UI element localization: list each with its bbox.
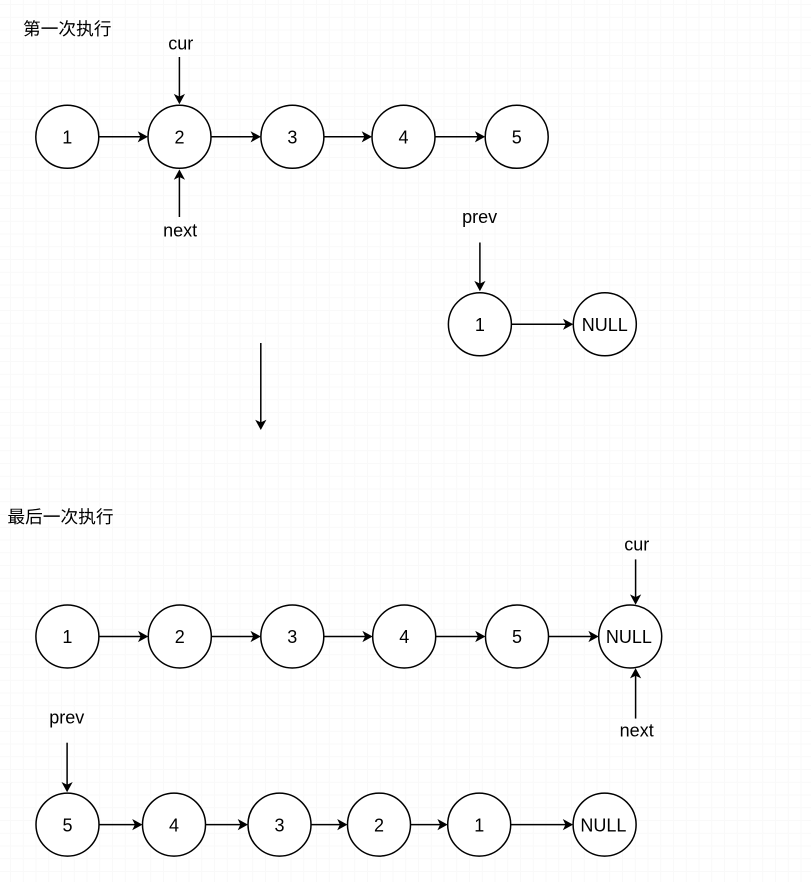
svg-text:3: 3 [274, 815, 284, 835]
svg-text:1: 1 [475, 315, 485, 335]
svg-text:2: 2 [374, 815, 384, 835]
svg-text:3: 3 [287, 627, 297, 647]
svg-text:1: 1 [474, 815, 484, 835]
svg-text:4: 4 [399, 627, 409, 647]
svg-text:1: 1 [62, 128, 72, 148]
svg-text:prev: prev [49, 707, 84, 727]
svg-text:NULL: NULL [580, 815, 626, 835]
svg-text:next: next [163, 220, 197, 240]
svg-text:1: 1 [62, 627, 72, 647]
svg-text:cur: cur [624, 535, 649, 555]
svg-text:NULL: NULL [582, 315, 628, 335]
svg-text:NULL: NULL [606, 627, 652, 647]
svg-text:3: 3 [287, 128, 297, 148]
svg-text:next: next [620, 720, 654, 740]
svg-text:4: 4 [398, 128, 408, 148]
svg-text:prev: prev [462, 207, 497, 227]
svg-text:5: 5 [512, 627, 522, 647]
svg-text:4: 4 [169, 815, 179, 835]
svg-text:5: 5 [512, 128, 522, 148]
svg-text:cur: cur [168, 33, 193, 53]
svg-text:5: 5 [62, 815, 72, 835]
svg-text:2: 2 [174, 128, 184, 148]
svg-text:2: 2 [175, 627, 185, 647]
